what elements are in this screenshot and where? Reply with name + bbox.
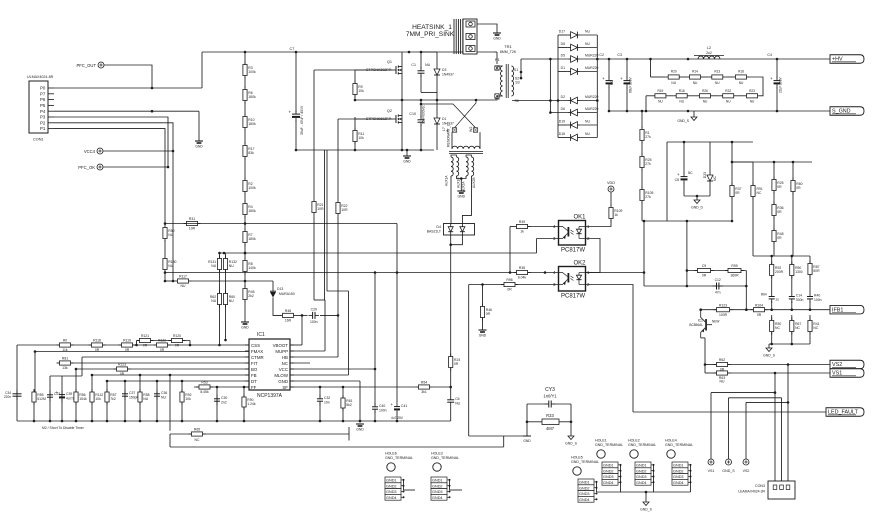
svg-text:GND2: GND2: [432, 484, 443, 488]
svg-text:10R: 10R: [317, 207, 324, 211]
svg-text:8MM_T2K: 8MM_T2K: [500, 50, 517, 54]
svg-text:D1: D1: [561, 66, 565, 70]
svg-text:NU: NU: [726, 99, 731, 103]
svg-text:GND_TERMINAL: GND_TERMINAL: [665, 443, 693, 447]
svg-text:22uF 250V: 22uF 250V: [779, 77, 783, 93]
svg-text:NC: NC: [813, 326, 818, 330]
svg-text:180k: 180k: [248, 237, 256, 241]
svg-text:GND1: GND1: [636, 464, 647, 468]
svg-text:C32: C32: [324, 396, 330, 400]
svg-text:100n: 100n: [310, 320, 318, 324]
svg-text:7MM_PRI_SINK: 7MM_PRI_SINK: [406, 31, 455, 38]
svg-text:GND: GND: [195, 145, 203, 149]
svg-text:+: +: [602, 76, 605, 81]
svg-text:27k: 27k: [645, 195, 651, 199]
svg-text:10k: 10k: [185, 397, 191, 401]
svg-text:GND_TERMINAL: GND_TERMINAL: [628, 443, 656, 447]
svg-text:C8: C8: [675, 178, 679, 182]
svg-text:SF: SF: [282, 385, 288, 390]
svg-text:GND4: GND4: [579, 498, 590, 502]
svg-text:R123: R123: [719, 303, 727, 307]
svg-text:4u7/25V: 4u7/25V: [391, 416, 404, 420]
svg-text:5k2: 5k2: [346, 403, 352, 407]
svg-text:200R: 200R: [775, 270, 784, 274]
svg-text:R16: R16: [679, 89, 685, 93]
svg-text:OK2: OK2: [573, 261, 586, 267]
svg-text:6.04k: 6.04k: [518, 276, 527, 280]
svg-text:0R: 0R: [702, 274, 707, 278]
svg-text:+: +: [289, 110, 292, 115]
svg-text:CON3: CON3: [755, 484, 765, 488]
svg-text:C29: C29: [311, 307, 317, 311]
svg-text:D5: D5: [561, 54, 565, 58]
svg-text:D6: D6: [561, 107, 565, 111]
svg-text:OK1: OK1: [573, 215, 586, 221]
svg-text:GND4: GND4: [432, 496, 443, 500]
svg-text:GND1: GND1: [432, 479, 443, 483]
svg-text:BO: BO: [251, 367, 258, 372]
svg-text:140k: 140k: [248, 266, 256, 270]
svg-text:FB: FB: [251, 373, 257, 378]
svg-text:D17: D17: [559, 30, 565, 34]
svg-text:D1: D1: [442, 117, 446, 121]
svg-text:R54: R54: [421, 381, 427, 385]
svg-text:GND: GND: [458, 195, 466, 199]
svg-text:R18: R18: [738, 70, 744, 74]
svg-text:VS2: VS2: [743, 469, 750, 473]
svg-text:D2: D2: [561, 95, 565, 99]
svg-text:NU: NU: [229, 264, 234, 268]
svg-text:HOLE4: HOLE4: [665, 439, 677, 443]
svg-text:AUX2B: AUX2B: [472, 178, 476, 188]
svg-text:GND_S: GND_S: [763, 354, 775, 358]
svg-text:CON1: CON1: [33, 138, 44, 142]
svg-text:VCC4: VCC4: [84, 149, 96, 154]
svg-text:GND2: GND2: [603, 469, 614, 473]
svg-text:R81: R81: [62, 357, 68, 361]
svg-text:0R: 0R: [777, 236, 782, 240]
svg-text:GND4: GND4: [636, 481, 647, 485]
svg-text:PC817W: PC817W: [561, 294, 585, 300]
svg-text:FIT: FIT: [251, 361, 258, 366]
svg-text:GND_TERMINAL: GND_TERMINAL: [385, 456, 413, 460]
svg-text:GND_S: GND_S: [722, 469, 735, 473]
svg-text:GND_TERMINAL: GND_TERMINAL: [571, 460, 599, 464]
svg-text:NU: NU: [693, 81, 698, 85]
svg-text:D19: D19: [559, 120, 565, 124]
svg-text:S3: S3: [515, 81, 519, 85]
svg-text:P3: P3: [40, 115, 46, 120]
svg-text:100k: 100k: [248, 186, 256, 190]
svg-text:R13: R13: [714, 70, 720, 74]
svg-text:L2: L2: [707, 46, 711, 50]
svg-text:NU: NU: [168, 264, 173, 268]
svg-text:MLOW: MLOW: [274, 373, 289, 378]
svg-text:S1: S1: [514, 68, 518, 72]
svg-text:15nF/630Vdc: 15nF/630Vdc: [422, 105, 426, 124]
svg-text:PC817W: PC817W: [561, 248, 585, 254]
svg-text:C36: C36: [161, 391, 167, 395]
svg-text:GND: GND: [241, 326, 249, 330]
svg-text:NU: NU: [585, 132, 590, 136]
svg-text:BC856AL: BC856AL: [689, 323, 703, 327]
svg-text:R53: R53: [201, 381, 207, 385]
svg-text:C2: C2: [599, 53, 604, 57]
svg-text:R19: R19: [657, 89, 663, 93]
svg-text:NU: NU: [211, 264, 216, 268]
svg-text:2k2: 2k2: [248, 294, 254, 298]
svg-text:+: +: [56, 390, 59, 395]
svg-text:GND3: GND3: [636, 475, 647, 479]
svg-text:GND_S: GND_S: [677, 119, 689, 123]
svg-text:R120: R120: [173, 334, 181, 338]
svg-text:0R: 0R: [777, 185, 782, 189]
svg-text:R14: R14: [692, 70, 698, 74]
svg-text:0R: 0R: [735, 191, 740, 195]
svg-text:180k: 180k: [248, 95, 256, 99]
svg-text:HB: HB: [282, 355, 288, 360]
svg-text:2n2: 2n2: [221, 400, 227, 404]
svg-text:NU: NU: [161, 395, 166, 399]
svg-text:HOLE1: HOLE1: [595, 439, 607, 443]
svg-text:MUR220: MUR220: [585, 107, 598, 111]
svg-text:NC: NC: [795, 326, 800, 330]
svg-text:R33: R33: [546, 413, 554, 418]
svg-text:NC: NC: [282, 361, 288, 366]
svg-text:PFC_OUT: PFC_OUT: [76, 63, 96, 68]
svg-text:83k: 83k: [248, 151, 254, 155]
svg-text:P6: P6: [40, 97, 46, 102]
svg-text:IC1: IC1: [257, 332, 265, 338]
svg-text:NU: NU: [455, 401, 460, 405]
svg-text:68uF 250V: 68uF 250V: [629, 77, 633, 93]
svg-text:1u: 1u: [775, 298, 779, 302]
svg-text:LEAMAX4024-3R: LEAMAX4024-3R: [738, 490, 765, 494]
svg-text:NU: NU: [703, 99, 708, 103]
svg-text:NU: NU: [425, 63, 431, 67]
svg-text:0R: 0R: [507, 288, 512, 292]
svg-text:GND1: GND1: [673, 464, 684, 468]
svg-text:R35: R35: [519, 266, 525, 270]
svg-text:10k: 10k: [358, 89, 364, 93]
svg-text:GND_TERMINAL: GND_TERMINAL: [431, 456, 459, 460]
svg-text:VS1: VS1: [708, 469, 715, 473]
svg-text:FMAX: FMAX: [251, 349, 263, 354]
svg-text:1N4937: 1N4937: [442, 73, 454, 77]
svg-text:512M: 512M: [37, 397, 46, 401]
svg-text:NU: NU: [750, 99, 755, 103]
svg-text:GND4: GND4: [386, 496, 397, 500]
svg-text:4M7: 4M7: [546, 426, 555, 431]
svg-text:R22: R22: [725, 89, 731, 93]
svg-text:NC: NC: [195, 438, 200, 442]
svg-text:DT: DT: [251, 379, 257, 384]
svg-text:0R: 0R: [777, 210, 782, 214]
svg-text:NU: NU: [181, 284, 186, 288]
svg-text:NU: NU: [229, 299, 234, 303]
svg-text:NC: NC: [610, 80, 614, 85]
svg-text:MUR220: MUR220: [585, 54, 598, 58]
svg-text:16R: 16R: [285, 319, 292, 323]
svg-text:R49: R49: [519, 220, 525, 224]
svg-text:P4: P4: [40, 109, 46, 114]
svg-text:100R: 100R: [719, 313, 728, 317]
svg-text:10R: 10R: [189, 227, 196, 231]
svg-text:10k: 10k: [95, 397, 101, 401]
svg-text:BAS21LT: BAS21LT: [427, 230, 441, 234]
svg-text:C6: C6: [455, 397, 459, 401]
svg-text:NU: NU: [585, 42, 590, 46]
svg-text:GND_S: GND_S: [565, 442, 577, 446]
svg-text:150pF: 150pF: [129, 395, 139, 399]
svg-text:8.45k: 8.45k: [200, 390, 209, 394]
svg-text:R117: R117: [179, 275, 187, 279]
svg-text:C39: C39: [66, 392, 72, 396]
svg-text:NC: NC: [775, 326, 780, 330]
svg-text:GND2: GND2: [386, 484, 397, 488]
svg-text:360R: 360R: [730, 274, 739, 278]
svg-text:NU: NU: [720, 380, 725, 384]
svg-text:27k: 27k: [645, 135, 651, 139]
svg-text:PFC_OK: PFC_OK: [78, 165, 95, 170]
svg-text:GND3: GND3: [673, 475, 684, 479]
svg-text:39uF - 47uF / 450V: 39uF - 47uF / 450V: [300, 105, 304, 135]
svg-text:1n0/Y1: 1n0/Y1: [543, 394, 557, 399]
svg-text:CSS: CSS: [251, 343, 260, 348]
svg-text:GND1: GND1: [603, 464, 614, 468]
svg-text:GND2: GND2: [579, 486, 590, 490]
svg-text:C10: C10: [409, 112, 416, 116]
svg-text:1k: 1k: [520, 230, 524, 234]
svg-text:100k: 100k: [248, 70, 256, 74]
svg-text:10n: 10n: [324, 400, 330, 404]
svg-text:2u2: 2u2: [706, 51, 712, 55]
svg-text:R26: R26: [702, 89, 708, 93]
svg-text:GND4: GND4: [603, 481, 614, 485]
svg-text:0R: 0R: [175, 344, 180, 348]
svg-text:RESONANT_2: RESONANT_2: [447, 124, 451, 147]
svg-text:R64: R64: [761, 293, 767, 297]
svg-text:10k: 10k: [358, 136, 364, 140]
svg-text:GND3: GND3: [432, 490, 443, 494]
svg-text:R31: R31: [189, 217, 195, 221]
svg-text:R104: R104: [755, 303, 763, 307]
svg-text:D23: D23: [703, 172, 707, 178]
svg-text:MUPP: MUPP: [275, 349, 288, 354]
svg-text:C1: C1: [411, 63, 416, 67]
svg-text:0R: 0R: [143, 344, 148, 348]
svg-text:AUX1A: AUX1A: [445, 175, 449, 186]
svg-text:C9: C9: [702, 264, 706, 268]
svg-text:R122: R122: [158, 339, 166, 343]
svg-text:HOLE3: HOLE3: [431, 452, 443, 456]
svg-text:D4: D4: [436, 225, 441, 229]
svg-text:GND3: GND3: [603, 475, 614, 479]
svg-text:NU: NU: [143, 397, 148, 401]
svg-text:GND1: GND1: [579, 481, 590, 485]
svg-text:NU: NU: [715, 81, 720, 85]
svg-text:100n: 100n: [814, 298, 822, 302]
svg-text:0R: 0R: [160, 348, 165, 352]
svg-text:GND2: GND2: [673, 469, 684, 473]
svg-text:D3: D3: [442, 68, 446, 72]
svg-text:P2: P2: [40, 120, 46, 125]
svg-text:HEATSINK_1: HEATSINK_1: [412, 24, 452, 31]
svg-text:C14: C14: [796, 294, 802, 298]
svg-text:47n: 47n: [715, 291, 721, 295]
svg-text:R119: R119: [123, 339, 131, 343]
svg-text:VCC: VCC: [279, 367, 288, 372]
svg-text:GND_S: GND_S: [640, 508, 652, 512]
svg-text:180k: 180k: [248, 209, 256, 213]
svg-text:0R: 0R: [454, 362, 459, 366]
svg-text:R99: R99: [731, 264, 737, 268]
svg-text:HOLE2: HOLE2: [628, 439, 640, 443]
svg-text:GND4: GND4: [673, 481, 684, 485]
svg-text:100n: 100n: [379, 408, 387, 412]
svg-text:7k2: 7k2: [110, 397, 116, 401]
svg-text:NU: NU: [739, 81, 744, 85]
svg-text:P1: P1: [40, 126, 46, 131]
svg-text:0R: 0R: [486, 312, 491, 316]
svg-text:FF: FF: [251, 385, 257, 390]
svg-text:+: +: [677, 172, 680, 177]
svg-text:C12: C12: [715, 278, 721, 282]
svg-text:1k: 1k: [614, 213, 618, 217]
svg-text:NCP1397A: NCP1397A: [257, 393, 283, 399]
svg-text:Q2: Q2: [387, 109, 392, 113]
svg-text:GND: GND: [523, 439, 531, 443]
svg-text:GND2: GND2: [636, 469, 647, 473]
svg-text:R23: R23: [749, 89, 755, 93]
svg-text:GND3: GND3: [579, 492, 590, 496]
svg-text:1300: 1300: [795, 270, 803, 274]
svg-text:AUX1B: AUX1B: [457, 178, 461, 188]
svg-text:R40: R40: [814, 294, 820, 298]
svg-text:D13: D13: [277, 287, 283, 291]
svg-text:GND: GND: [356, 428, 364, 432]
svg-text:3k1: 3k1: [421, 390, 427, 394]
svg-text:C30: C30: [221, 396, 227, 400]
svg-text:50R: 50R: [813, 269, 820, 273]
svg-text:S6: S6: [515, 99, 519, 103]
svg-text:R121: R121: [141, 334, 149, 338]
svg-text:ULMAX4024-8R: ULMAX4024-8R: [27, 75, 54, 79]
svg-text:10R: 10R: [341, 208, 348, 212]
svg-text:M2 / Short To Disable Timer: M2 / Short To Disable Timer: [42, 426, 85, 430]
svg-text:R20: R20: [671, 70, 677, 74]
svg-text:330n: 330n: [796, 298, 804, 302]
svg-text:MUR220: MUR220: [585, 66, 598, 70]
svg-text:VDD: VDD: [607, 181, 615, 185]
svg-text:P7: P7: [40, 91, 46, 96]
svg-text:NU: NU: [585, 30, 590, 34]
svg-text:HOLE5: HOLE5: [571, 456, 583, 460]
svg-text:D8: D8: [561, 42, 565, 46]
svg-text:0R: 0R: [95, 348, 100, 352]
svg-text:NC: NC: [757, 191, 762, 195]
svg-text:P5: P5: [40, 103, 46, 108]
svg-text:HOLE6: HOLE6: [385, 452, 397, 456]
svg-text:1.24k: 1.24k: [247, 402, 256, 406]
svg-text:GND1: GND1: [386, 479, 397, 483]
svg-text:GND: GND: [479, 334, 487, 338]
svg-text:154k: 154k: [79, 397, 87, 401]
svg-text:TR1: TR1: [504, 44, 512, 49]
svg-text:R62: R62: [719, 358, 725, 362]
svg-text:NEW: NEW: [712, 320, 719, 324]
svg-text:R46: R46: [285, 309, 291, 313]
svg-text:0R: 0R: [125, 348, 130, 352]
svg-text:W2: W2: [469, 127, 473, 132]
svg-text:+: +: [391, 402, 394, 407]
svg-text:GND: GND: [493, 37, 501, 41]
svg-text:NU: NU: [211, 299, 216, 303]
svg-text:C4: C4: [767, 53, 772, 57]
svg-text:11k: 11k: [62, 348, 68, 352]
svg-text:R0: R0: [63, 339, 67, 343]
svg-text:P0: P0: [40, 86, 46, 91]
svg-text:MURA150: MURA150: [279, 292, 295, 296]
svg-text:MUR220: MUR220: [585, 95, 598, 99]
svg-text:GND_D: GND_D: [691, 206, 703, 210]
svg-text:CTMR: CTMR: [251, 355, 264, 360]
svg-text:0R: 0R: [757, 313, 762, 317]
svg-text:+: +: [770, 76, 773, 81]
svg-text:NU: NU: [658, 99, 663, 103]
svg-text:NU: NU: [168, 233, 173, 237]
svg-text:R118: R118: [93, 339, 101, 343]
svg-text:13k: 13k: [62, 366, 68, 370]
svg-text:NU: NU: [679, 99, 684, 103]
svg-text:0R: 0R: [120, 372, 125, 376]
svg-text:C7: C7: [290, 47, 295, 51]
svg-text:NC: NC: [713, 176, 717, 181]
svg-text:Q1: Q1: [387, 60, 392, 64]
svg-text:+: +: [620, 76, 623, 81]
svg-text:220n: 220n: [4, 395, 11, 399]
svg-text:AUX2A: AUX2A: [462, 181, 466, 192]
svg-text:D18: D18: [559, 132, 565, 136]
svg-text:NU: NU: [671, 81, 676, 85]
svg-text:GND_TERMINAL: GND_TERMINAL: [595, 443, 623, 447]
svg-text:NU: NU: [585, 120, 590, 124]
svg-text:GND3: GND3: [386, 490, 397, 494]
svg-text:C3: C3: [617, 53, 622, 57]
svg-text:180k: 180k: [248, 122, 256, 126]
svg-text:CY3: CY3: [545, 387, 555, 393]
svg-text:27k: 27k: [645, 162, 651, 166]
svg-text:GND: GND: [278, 379, 288, 384]
svg-text:0R: 0R: [796, 186, 801, 190]
svg-text:C41: C41: [401, 404, 407, 408]
svg-text:C37: C37: [129, 391, 135, 395]
svg-text:R123: R123: [118, 363, 126, 367]
svg-text:VBOOT: VBOOT: [273, 343, 289, 348]
svg-text:C40: C40: [379, 404, 385, 408]
svg-text:R96: R96: [506, 278, 512, 282]
svg-text:NC: NC: [688, 171, 693, 175]
svg-text:GND: GND: [403, 160, 411, 164]
svg-text:R65: R65: [194, 428, 200, 432]
